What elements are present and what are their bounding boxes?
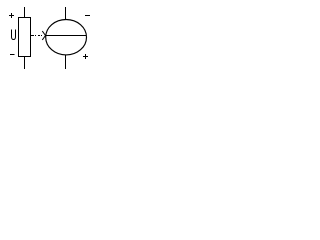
wire bottom-right terminal <box>65 55 67 69</box>
controlled source (ellipse) <box>46 20 87 55</box>
control line (dash-dot) <box>31 35 42 37</box>
source bar (horizontal line through source) <box>46 35 86 37</box>
label + (left polarity) <box>9 13 14 18</box>
wire top-left terminal <box>24 7 26 18</box>
arrowhead of control line <box>42 31 45 40</box>
wire top-right terminal <box>65 7 67 20</box>
label - (right polarity) <box>85 15 90 17</box>
label U (voltage) <box>12 30 16 40</box>
label - (left polarity) <box>10 54 15 56</box>
wire bottom-left terminal <box>24 57 26 70</box>
label + (right polarity) <box>83 54 88 59</box>
box element U (controlling voltage port) <box>19 18 31 57</box>
